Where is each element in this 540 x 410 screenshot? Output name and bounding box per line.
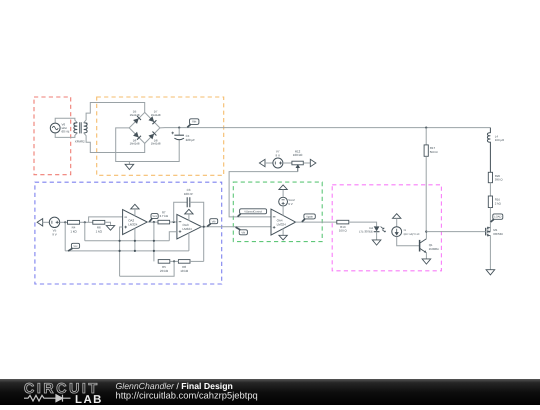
bridge diamond edges bbox=[129, 112, 160, 143]
wire V6 top lead bbox=[55, 118, 77, 123]
svg-text:Vin: Vin bbox=[192, 120, 197, 124]
transformer XFMR2 phase dot secondary bbox=[86, 123, 88, 125]
wire R4 to R6 bbox=[80, 221, 93, 223]
wire R5-R8 link bbox=[170, 260, 179, 262]
wire ground stem under bridge bbox=[128, 162, 130, 165]
wire C3 feedback right leg bbox=[190, 202, 204, 261]
terminal OA2 positive supply arrow bbox=[131, 204, 139, 209]
svg-text:LM324: LM324 bbox=[277, 222, 287, 226]
wire wiper to OA4 inverting input bbox=[229, 172, 298, 217]
svg-text:100 Ω: 100 Ω bbox=[339, 229, 348, 233]
node junction R17 tap bbox=[425, 127, 427, 129]
potentiometer R12 wiper arrow bbox=[296, 165, 299, 172]
svg-text:60 Hz: 60 Hz bbox=[62, 129, 70, 133]
wire Vcc junction down to bus2 bbox=[64, 222, 66, 251]
comparator section box (green dashed) bbox=[233, 182, 322, 242]
node bus1 dot b bbox=[134, 240, 136, 242]
wire R17 top stem bbox=[425, 128, 427, 145]
wire OA3 output to OA4 bbox=[201, 226, 272, 228]
node bus1 dot c bbox=[153, 240, 155, 242]
optocoupler section box (magenta dashed) bbox=[332, 185, 441, 271]
node bus2 dot b bbox=[134, 250, 136, 252]
svg-text:LTL-307EE: LTL-307EE bbox=[359, 229, 373, 233]
potentiometer R12 bbox=[292, 161, 303, 165]
node flag Vx1 bbox=[149, 214, 158, 222]
svg-text:LM324: LM324 bbox=[183, 227, 193, 231]
capacitor C3 bbox=[187, 197, 190, 207]
voltage source V7 bbox=[273, 158, 283, 168]
resistor R17 bbox=[424, 145, 428, 156]
svg-text:390 Ω: 390 Ω bbox=[495, 178, 504, 182]
wire R8 right to OA3 output leg bbox=[190, 260, 204, 262]
wire OA2 output bbox=[147, 221, 158, 223]
node flag Vgate bbox=[302, 214, 315, 222]
wire OA2 Vminus stem to bus2 bbox=[134, 228, 136, 251]
capacitor C4 (polarized) bbox=[171, 132, 184, 140]
svg-text:2 kΩ: 2 kΩ bbox=[495, 201, 502, 205]
wire OA3 noninverting jog to bus1 bbox=[169, 232, 177, 241]
node bus2 dot c bbox=[153, 250, 155, 252]
ground (load) bbox=[486, 270, 495, 275]
node R5-R8 junction bbox=[173, 260, 175, 262]
wire Vcc2 to OA4 bbox=[282, 206, 284, 216]
terminal OA3 positive supply arrow bbox=[185, 209, 193, 214]
svg-text:IRF530: IRF530 bbox=[493, 232, 503, 236]
resistor R6 bbox=[93, 220, 105, 224]
node flag Vcc bbox=[68, 243, 80, 251]
node Vcc junction bbox=[64, 221, 66, 223]
svg-text:9 V: 9 V bbox=[275, 153, 280, 157]
svg-text:1N4148: 1N4148 bbox=[130, 142, 140, 146]
svg-text:Vx1: Vx1 bbox=[152, 215, 157, 218]
svg-text:100 kΩ: 100 kΩ bbox=[293, 153, 303, 157]
svg-text:9 V: 9 V bbox=[52, 232, 57, 236]
wire LED to ground bbox=[376, 232, 378, 240]
resistor R5 bbox=[158, 260, 170, 264]
svg-text:1N4148: 1N4148 bbox=[151, 142, 161, 146]
node divider junction bbox=[84, 221, 86, 223]
svg-text:9 V: 9 V bbox=[288, 202, 292, 206]
ground (LED) bbox=[372, 240, 381, 245]
wire bridge negative branch bbox=[116, 128, 180, 162]
node flag Vfb (at OA4 input) bbox=[236, 227, 248, 235]
diode D8 (bridge bottom-right) bbox=[148, 131, 156, 139]
current source I1 bbox=[392, 227, 402, 237]
voltage source V6 (AC) bbox=[50, 123, 60, 133]
svg-text:Vgate: Vgate bbox=[306, 216, 313, 219]
svg-text:10 kΩ: 10 kΩ bbox=[180, 269, 189, 273]
svg-text:3.7 kΩ: 3.7 kΩ bbox=[159, 214, 168, 218]
voltage source Vcc2 bbox=[279, 197, 288, 206]
wire R6 to terminal arrow bbox=[105, 222, 111, 225]
svg-text:20 kΩ: 20 kΩ bbox=[160, 269, 169, 273]
wire divider up to OA2 inverting input bbox=[89, 217, 123, 222]
diode D7 (bridge top-right) bbox=[148, 116, 156, 124]
terminal OA4 supply arrow bbox=[279, 185, 287, 190]
op-amp U2 OA3 bbox=[177, 214, 202, 239]
terminal (V7 left arrow) bbox=[259, 159, 265, 166]
wire R12 to right terminal bbox=[303, 162, 311, 164]
ground (Q1 emitter) bbox=[422, 259, 431, 264]
svg-text:Vfb: Vfb bbox=[241, 231, 245, 234]
resistor R7 bbox=[158, 220, 170, 224]
wire V7 to R12 bbox=[283, 162, 292, 164]
ground (rectifier) bbox=[125, 164, 134, 169]
wire V5 to R4 bbox=[60, 221, 68, 223]
wire divider down to bus1 bbox=[84, 222, 86, 241]
svg-text:VSpeedControl: VSpeedControl bbox=[244, 210, 262, 213]
transformer XFMR2 primary coil bbox=[74, 123, 77, 133]
svg-text:220 µF: 220 µF bbox=[186, 138, 196, 142]
svg-text:LOAD: LOAD bbox=[494, 216, 501, 219]
svg-text:100 nF: 100 nF bbox=[184, 192, 194, 196]
wire secondary top to bridge bbox=[84, 103, 145, 123]
mosfet M1 bbox=[486, 227, 491, 237]
wire Q1 collector up bbox=[425, 232, 427, 239]
op-amp U1 OA2 bbox=[123, 210, 148, 235]
wire bus2 (supply net) bbox=[65, 250, 189, 252]
svg-text:http://circuitlab.com/cahzrp5j: http://circuitlab.com/cahzrp5jebtpq bbox=[116, 389, 258, 400]
node OA3 output junction bbox=[203, 226, 205, 228]
svg-text:100 µH: 100 µH bbox=[495, 138, 504, 142]
node flag Vfb (at OA3 output) bbox=[207, 219, 218, 227]
terminal I1 arrow bbox=[393, 214, 401, 219]
svg-text:LM324: LM324 bbox=[128, 222, 138, 226]
AC input section box (red dashed) bbox=[34, 97, 71, 175]
wire I1 to Q1 base bbox=[397, 237, 420, 246]
CircuitLab logo resistor zigzag bbox=[24, 395, 49, 401]
wire OA3 Vminus stem to bus2 bbox=[188, 233, 190, 251]
wire terminal to V5 bbox=[43, 221, 50, 223]
wire C4 top stem bbox=[178, 128, 180, 136]
wire M1 source to ground bbox=[489, 235, 491, 269]
node bus1 dot a bbox=[119, 240, 121, 242]
wire C3 feedback left leg bbox=[174, 202, 188, 222]
svg-text:560 Ω: 560 Ω bbox=[430, 150, 439, 154]
wire OA2 output down to R5 bbox=[153, 222, 155, 261]
wire R7 to OA3 inverting input bbox=[170, 221, 177, 223]
resistor R8 bbox=[178, 260, 190, 264]
wire R13 to LED bbox=[349, 222, 377, 226]
terminal OA4 negative supply arrow bbox=[279, 235, 287, 240]
node Vin junction at C4 bbox=[178, 127, 180, 129]
op-amp U3 OA4 bbox=[271, 209, 296, 235]
node OA3 inverting junction bbox=[173, 221, 175, 223]
wire bus1 (noninverting net) bbox=[85, 240, 170, 242]
svg-text:XFMR2: XFMR2 bbox=[75, 140, 85, 144]
wire OA3 Vplus stem bbox=[188, 214, 190, 221]
resistor R13 bbox=[337, 220, 349, 224]
wire M1 drain stub bbox=[489, 228, 491, 232]
resistor R20 bbox=[488, 172, 492, 182]
wire OA2 noninverting input jog bbox=[120, 227, 123, 276]
wire terminal to V7 bbox=[265, 162, 273, 164]
svg-text:Vfb: Vfb bbox=[212, 220, 216, 223]
node flag VSpeedControl bbox=[238, 209, 267, 217]
transformer XFMR2 phase dot primary bbox=[74, 123, 76, 125]
wire R5R8 junction bottom loop bbox=[120, 261, 175, 276]
wire gate drive to M1 bbox=[426, 231, 485, 233]
svg-text:LAB: LAB bbox=[75, 394, 103, 405]
rectifier section box (orange dashed) bbox=[97, 97, 224, 175]
node gate drive junction bbox=[425, 231, 427, 233]
wire OA4 supply arrow stem bbox=[282, 190, 284, 197]
wire main positive rail bbox=[160, 127, 491, 129]
transistor Q1 bbox=[420, 239, 427, 253]
footer bar bbox=[0, 379, 540, 405]
wire OA4 output bbox=[295, 221, 336, 223]
terminal (R6 return arrow) bbox=[106, 226, 114, 231]
svg-text:I(D7.nA)*0.10: I(D7.nA)*0.10 bbox=[404, 233, 420, 236]
terminal (V5 input arrow) bbox=[37, 219, 43, 226]
LED D4 bbox=[374, 226, 386, 232]
diode D6 (bridge bottom-left) bbox=[133, 132, 141, 140]
svg-text:1 kΩ: 1 kΩ bbox=[96, 229, 103, 233]
transformer XFMR2 secondary coil bbox=[84, 123, 87, 133]
resistor R4 bbox=[68, 220, 80, 224]
node OA2 output junction bbox=[153, 221, 155, 223]
transformer XFMR2 core bbox=[80, 122, 82, 133]
wire arrow to I1 bbox=[396, 218, 398, 227]
CircuitLab logo diode symbol bbox=[49, 395, 71, 402]
svg-text:1N4148: 1N4148 bbox=[130, 113, 140, 117]
resistor R16 bbox=[488, 196, 492, 208]
wire Q1 emitter to ground bbox=[425, 253, 427, 259]
control amplifier section box (blue dashed) bbox=[35, 182, 222, 284]
node flag Vin bbox=[187, 119, 199, 128]
terminal (V7 right arrow) bbox=[310, 159, 316, 166]
wire V6 bottom lead bbox=[55, 133, 77, 138]
node bus2 dot a bbox=[119, 250, 121, 252]
svg-text:Vcc: Vcc bbox=[73, 245, 78, 248]
node flag LOAD bbox=[491, 214, 503, 222]
wire R20 to R16 bbox=[489, 183, 491, 196]
voltage source V5 bbox=[49, 217, 59, 227]
inductor L4 bbox=[487, 128, 490, 173]
wire OA4 Vminus stem bbox=[282, 229, 284, 236]
diode D5 (bridge top-left) bbox=[133, 116, 141, 124]
wire R16 to M1 drain bbox=[489, 208, 491, 228]
svg-text:1N4148: 1N4148 bbox=[151, 113, 161, 117]
svg-text:2N3904: 2N3904 bbox=[429, 247, 439, 251]
wire R17 bottom to Q1 collector bbox=[425, 156, 427, 231]
svg-text:1 kΩ: 1 kΩ bbox=[70, 229, 77, 233]
wire OA2 Vplus stem bbox=[134, 209, 136, 216]
wire secondary bottom bbox=[84, 133, 145, 153]
